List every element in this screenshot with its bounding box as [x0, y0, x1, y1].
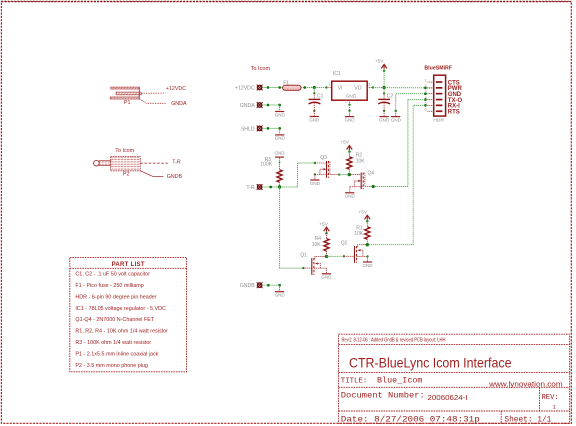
svg-text:3: 3	[425, 89, 427, 94]
svg-text:+12VDC: +12VDC	[166, 86, 186, 92]
svg-text:RTS: RTS	[448, 110, 460, 116]
svg-text:Sheet: 1/1: Sheet: 1/1	[504, 417, 551, 425]
node R4/Q1 drain/Q2 gate junction	[325, 255, 328, 258]
svg-text:+5V: +5V	[340, 140, 349, 146]
svg-text:Blue_Icom: Blue_Icom	[377, 378, 423, 386]
pin 2 PWR	[427, 87, 433, 89]
svg-text:1: 1	[553, 404, 556, 410]
ground under Q1	[325, 268, 327, 273]
svg-text:GND: GND	[391, 117, 402, 122]
svg-text:Date: 8/27/2006 07:48:31p: Date: 8/27/2006 07:48:31p	[341, 417, 480, 425]
svg-text:R3 - 100K ohm 1/4 watt resisto: R3 - 100K ohm 1/4 watt resistor	[75, 340, 151, 346]
op-amp-region: voltage regulator IC1	[326, 87, 331, 89]
svg-text:Rev1: 8-12-06 : Added GndB & r: Rev1: 8-12-06 : Added GndB & revised PCB…	[342, 337, 446, 343]
ground at GNDA	[279, 105, 281, 111]
part list items	[75, 272, 168, 369]
pin 6 RTS	[427, 110, 433, 112]
svg-text:GND: GND	[363, 263, 374, 268]
svg-text:+5V: +5V	[319, 222, 328, 228]
svg-text:VO: VO	[354, 85, 361, 91]
svg-text:+12VDC: +12VDC	[235, 85, 255, 91]
wire header pin5 to Q2 drain node	[367, 105, 427, 244]
ground under C1	[313, 110, 315, 112]
IC1 GND pin wire and ground	[349, 100, 351, 105]
pin 4 TX-O	[427, 99, 433, 101]
pad GNDA	[257, 102, 263, 108]
pad SHLD	[257, 126, 263, 132]
svg-text:CTR-BlueLync Icom Interface: CTR-BlueLync Icom Interface	[349, 356, 512, 371]
svg-text:GNDB: GNDB	[167, 174, 183, 180]
svg-text:GND: GND	[346, 94, 357, 100]
svg-text:GND: GND	[345, 117, 356, 122]
svg-text:+5V: +5V	[358, 210, 367, 216]
title block frame	[339, 334, 570, 423]
svg-text:P2 - 3.5 mm mono phone plug: P2 - 3.5 mm mono phone plug	[75, 363, 148, 369]
fuse F1	[283, 85, 301, 90]
pin 5 RX-I	[427, 104, 433, 106]
svg-text:HDR - 6-pin 90 degree pin head: HDR - 6-pin 90 degree pin header	[75, 295, 156, 301]
svg-text:T-R: T-R	[172, 159, 181, 165]
svg-text:GND: GND	[345, 194, 356, 199]
wire +12VDC pad to fuse	[262, 87, 282, 89]
svg-text:GNDA: GNDA	[171, 101, 187, 107]
svg-text:10K: 10K	[312, 242, 322, 248]
svg-text:6: 6	[425, 107, 427, 112]
svg-text:C1, C2 - .1 uF 50 volt capacit: C1, C2 - .1 uF 50 volt capacitor	[75, 272, 150, 278]
resistor R2 10K	[348, 152, 350, 157]
svg-text:To Icom: To Icom	[251, 66, 271, 72]
svg-text:GND: GND	[309, 117, 320, 122]
svg-text:IC1 - 78L05 voltage regulator: IC1 - 78L05 voltage regulator - 5 VDC	[75, 306, 166, 312]
frame border top dark edge	[1, 0, 571, 2]
svg-text:SHLD: SHLD	[241, 126, 255, 132]
svg-text:GND: GND	[379, 117, 390, 122]
svg-text:10K: 10K	[354, 231, 364, 237]
svg-text:C2: C2	[387, 93, 394, 99]
svg-text:C1: C1	[317, 93, 324, 99]
wire P1 +12VDC lead	[141, 92, 166, 94]
svg-text:VI: VI	[338, 85, 343, 91]
svg-text:GND: GND	[275, 112, 286, 117]
svg-text:TITLE:: TITLE:	[341, 378, 368, 386]
wire P2 GNDB lead	[140, 171, 163, 177]
svg-text:P2: P2	[123, 172, 130, 178]
svg-text:GNDB: GNDB	[240, 283, 256, 289]
wire header pin4 to Q4 drain	[373, 100, 427, 187]
svg-text:GND: GND	[275, 150, 286, 155]
svg-text:F1 - Pico fuse - 250 milliamp: F1 - Pico fuse - 250 milliamp	[75, 283, 143, 289]
svg-text:F1: F1	[283, 81, 289, 87]
svg-text:P1: P1	[124, 100, 131, 106]
svg-text:To Icom: To Icom	[115, 148, 134, 154]
svg-text:Q3: Q3	[320, 155, 327, 161]
ground under Q2	[367, 256, 369, 261]
wire GNDA pad to ground	[262, 104, 279, 106]
svg-text:Q4: Q4	[368, 170, 375, 176]
wire P1 GNDA lead	[139, 99, 165, 103]
wire T-R junction down to Q1 gate	[280, 187, 304, 268]
svg-text:2: 2	[345, 100, 347, 104]
ground at header pin3	[395, 111, 397, 116]
ground under IC1	[349, 111, 351, 116]
pin 3 GND	[427, 93, 433, 95]
wire fuse to IC1 VI	[301, 87, 326, 89]
ground under Q3	[314, 175, 316, 180]
svg-text:GND: GND	[310, 181, 321, 186]
svg-text:1: 1	[425, 77, 427, 82]
svg-text:+5V: +5V	[375, 59, 384, 65]
svg-text:P1 - 2.1x5.5 mm inline coaxial: P1 - 2.1x5.5 mm inline coaxial jack	[75, 352, 158, 358]
svg-text:www.lynovation.com: www.lynovation.com	[488, 379, 563, 388]
svg-text:PART LIST: PART LIST	[112, 262, 145, 268]
svg-text:IC1: IC1	[333, 71, 341, 77]
wire header pin3 to ground	[396, 94, 427, 111]
wire T-R pad to R3 junction and Q3 gate	[262, 163, 315, 187]
svg-text:T-R: T-R	[246, 185, 255, 191]
ground under C2	[383, 110, 385, 112]
svg-text:GND: GND	[275, 136, 286, 141]
resistor R1 10K	[366, 221, 368, 227]
pad +12VDC	[257, 85, 263, 91]
ground at SHLD	[279, 128, 281, 134]
svg-text:REV:: REV:	[542, 394, 559, 402]
node T-R junction	[278, 185, 281, 188]
svg-text:GND: GND	[275, 293, 286, 298]
ground at GNDB	[279, 285, 281, 291]
junction rail/C1	[313, 86, 316, 89]
svg-text:10K: 10K	[356, 158, 366, 164]
capacitor C2	[383, 92, 385, 94]
ground under Q4	[349, 187, 351, 193]
wire Q3 drain to R2/Q4 gate	[339, 174, 349, 176]
resistor R3 100K	[279, 161, 281, 163]
wire Q1 drain junction to Q2 gate	[327, 255, 344, 257]
svg-text:100K: 100K	[260, 161, 272, 167]
svg-text:Document Number:: Document Number:	[341, 393, 425, 401]
pad T-R	[257, 184, 263, 190]
svg-text:GND: GND	[321, 275, 332, 280]
svg-text:Q1-Q4 - 2N7000 N-Channel FET: Q1-Q4 - 2N7000 N-Channel FET	[75, 317, 155, 323]
svg-text:HDR: HDR	[433, 118, 444, 124]
node R2/Q4 junction	[348, 173, 351, 176]
svg-text:Q2: Q2	[341, 241, 348, 247]
svg-text:3: 3	[368, 82, 370, 86]
node R1/Q2 drain junction	[366, 243, 369, 246]
wire GNDB pad to ground	[262, 284, 279, 286]
resistor R4 10K	[326, 233, 328, 238]
svg-text:R1, R2, R4 - 10K ohm 1/4 watt: R1, R2, R4 - 10K ohm 1/4 watt resistor	[75, 329, 168, 335]
pad GNDB	[257, 282, 263, 288]
svg-text:BlueSMiRF: BlueSMiRF	[424, 65, 452, 71]
junction +5V/C2	[383, 86, 386, 89]
svg-text:1: 1	[328, 82, 330, 86]
connector P1 (coaxial power jack drawing)	[110, 87, 141, 99]
wire P2 T-R lead	[140, 162, 168, 164]
pin 1 CTS	[427, 81, 433, 83]
capacitor C1	[313, 88, 315, 94]
wire IC1 VO to +5V rail	[367, 87, 373, 89]
svg-text:GNDA: GNDA	[240, 103, 256, 109]
svg-text:20060624-I: 20060624-I	[428, 395, 468, 402]
svg-text:Q1: Q1	[300, 253, 307, 259]
wire +5V down through rail to C2	[383, 71, 385, 94]
part list box	[70, 258, 187, 372]
wire SHLD pad to ground	[262, 127, 279, 129]
